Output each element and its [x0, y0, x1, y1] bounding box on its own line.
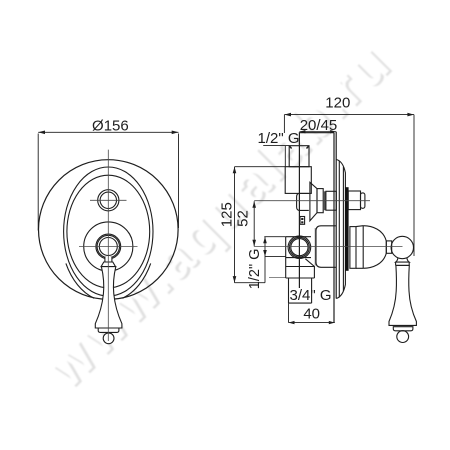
svg-text:125: 125 — [219, 202, 236, 227]
dim 40 — [289, 303, 335, 323]
neck under union — [297, 193, 309, 210]
svg-text:40: 40 — [303, 305, 320, 322]
union block — [285, 167, 311, 194]
oval bevel arcs (bottom corners) — [66, 263, 94, 298]
central hub block inner line — [314, 228, 316, 266]
handle hub + bulb — [350, 227, 356, 269]
body slab — [299, 133, 334, 288]
dim 52 — [253, 201, 255, 246]
svg-text:20/45: 20/45 — [300, 117, 338, 134]
oval outer — [64, 167, 153, 296]
bottom pipe — [288, 278, 290, 303]
svg-text:1/2" G: 1/2" G — [258, 130, 300, 147]
elbow below — [286, 266, 315, 268]
ball knob — [391, 236, 413, 258]
set screw — [300, 217, 305, 225]
lever hub circles — [84, 222, 133, 271]
svg-text:52: 52 — [234, 210, 251, 227]
oval inner — [67, 175, 150, 288]
lever body — [95, 267, 122, 328]
svg-text:120: 120 — [325, 95, 350, 112]
arrowheads Ø156 — [38, 131, 178, 135]
upper stem right of plate — [348, 191, 360, 210]
port dim lines — [264, 237, 285, 283]
svg-text:Ø156: Ø156 — [92, 118, 129, 135]
waist — [386, 241, 391, 253]
side lever — [396, 258, 410, 262]
svg-text:1/2" G: 1/2" G — [247, 249, 263, 290]
outer plate circle — [39, 160, 179, 300]
bonnet cone + cylinder + knurl — [310, 182, 317, 221]
top pipe — [289, 146, 309, 167]
outlet circles — [288, 236, 311, 259]
axes — [254, 201, 402, 247]
dim 120 — [284, 115, 414, 256]
lever ball — [103, 333, 114, 344]
lever base band — [98, 328, 119, 332]
outlet boss — [286, 236, 311, 238]
plate side — [335, 132, 337, 299]
svg-text:3/4" G: 3/4" G — [290, 287, 332, 304]
central hub block — [316, 226, 336, 267]
knob circles (diverter) — [98, 190, 119, 211]
dim 20/45 — [299, 131, 336, 133]
centerlines — [79, 150, 138, 341]
lever neck + collar — [105, 257, 112, 262]
dimension Ø156 line — [38, 132, 178, 230]
dim 125 — [235, 167, 286, 283]
